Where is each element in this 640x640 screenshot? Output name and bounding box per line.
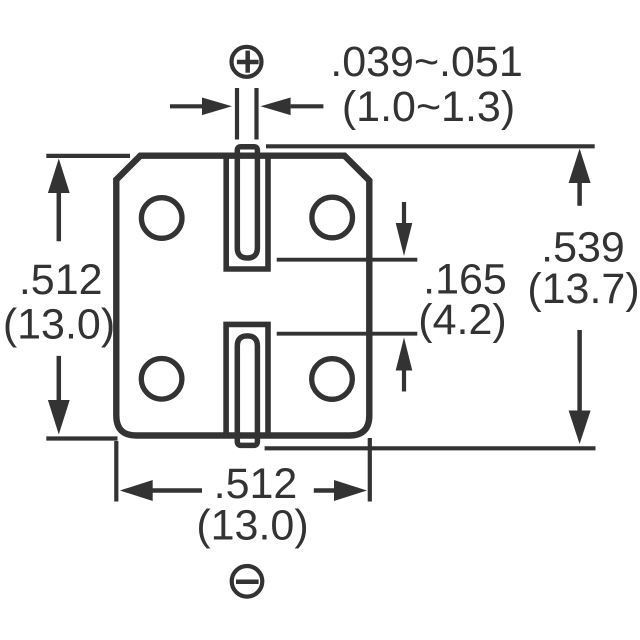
svg-text:(4.2): (4.2) [418,296,506,344]
svg-text:(13.0): (13.0) [196,502,308,550]
svg-text:(1.0~1.3): (1.0~1.3) [342,83,515,131]
svg-text:(13.0): (13.0) [3,301,115,349]
svg-text:.512: .512 [19,256,103,304]
svg-text:(13.7): (13.7) [527,265,639,313]
svg-text:.039~.051: .039~.051 [330,38,523,86]
